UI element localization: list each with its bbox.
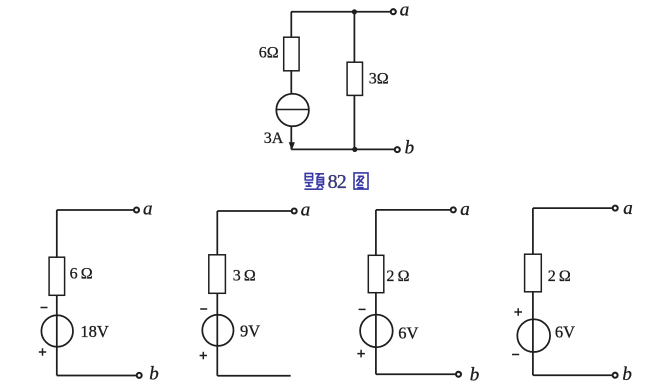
svg-text:2 Ω: 2 Ω	[548, 268, 571, 285]
wire through source (circuit 1)	[56, 295, 58, 375]
terminal a (circuit 2)	[292, 209, 297, 214]
wire bottom horizontal (top circuit)	[291, 148, 394, 150]
svg-text:3Ω: 3Ω	[369, 70, 389, 87]
svg-text:3 Ω: 3 Ω	[233, 268, 256, 285]
svg-text:a: a	[143, 198, 153, 219]
terminal b (circuit 3)	[456, 372, 461, 377]
terminal a (top circuit)	[391, 9, 396, 14]
current source 3A (circle with bar)	[276, 94, 309, 127]
polarity minus (circuit 2)	[200, 308, 207, 310]
resistor 2Ω (circuit 4)	[525, 254, 542, 292]
wire top horizontal (circuit 1)	[57, 209, 134, 211]
svg-text:18V: 18V	[80, 322, 109, 341]
wire vertical above resistor (circuit 4)	[532, 208, 534, 254]
resistor 3Ω (circuit 2)	[209, 255, 226, 293]
resistor 2Ω (circuit 3)	[368, 255, 384, 292]
svg-text:82: 82	[328, 171, 346, 193]
svg-text:a: a	[460, 199, 470, 220]
wire bottom horizontal (circuit 3)	[376, 373, 455, 375]
wire vertical above resistor (circuit 3)	[375, 210, 377, 255]
glyph 题	[304, 173, 322, 189]
svg-text:b: b	[405, 138, 415, 159]
polarity plus (circuit 1)	[39, 348, 46, 355]
wire through source (circuit 2)	[216, 293, 218, 376]
wire top horizontal (top circuit)	[291, 11, 390, 13]
svg-text:b: b	[470, 365, 480, 386]
resistor 6Ω (top circuit)	[284, 37, 299, 71]
voltage source 18V (circuit 1)	[41, 315, 73, 347]
polarity minus (circuit 3)	[359, 308, 366, 310]
wire through source (circuit 3)	[375, 293, 377, 375]
svg-text:b: b	[622, 364, 632, 385]
wire left vertical above resistor	[290, 12, 292, 37]
polarity minus (circuit 1)	[41, 307, 48, 309]
wire top horizontal (circuit 2)	[217, 210, 291, 212]
wire bottom horizontal (circuit 1)	[57, 375, 136, 377]
voltage source 6V (circuit 3)	[360, 315, 393, 348]
polarity minus (circuit 4)	[512, 354, 519, 356]
svg-text:a: a	[623, 198, 633, 219]
svg-text:3A: 3A	[264, 130, 284, 147]
wire vertical above resistor (circuit 2)	[216, 211, 218, 255]
wire top horizontal (circuit 3)	[376, 209, 450, 211]
svg-text:6V: 6V	[398, 323, 418, 342]
svg-text:a: a	[400, 0, 410, 21]
terminal b (top circuit)	[395, 147, 400, 152]
svg-text:6V: 6V	[555, 322, 575, 341]
terminal a (circuit 4)	[613, 206, 618, 211]
terminal b (circuit 1)	[137, 373, 142, 378]
terminal a (circuit 3)	[451, 207, 456, 212]
junction node bottom	[352, 147, 357, 152]
svg-text:6Ω: 6Ω	[259, 45, 279, 62]
terminal b (circuit 4)	[613, 373, 618, 378]
junction node top	[352, 9, 357, 14]
wire top horizontal (circuit 4)	[533, 207, 612, 209]
resistor 6Ω (circuit 1)	[49, 257, 65, 295]
wire bottom horizontal (circuit 2, terminal cropped)	[217, 375, 290, 377]
wire through source (circuit 4)	[532, 292, 534, 376]
svg-text:b: b	[149, 364, 159, 385]
caption 题 82 图	[304, 171, 368, 193]
wire right vertical below resistor	[353, 95, 355, 149]
polarity plus (circuit 2)	[200, 352, 207, 359]
terminal a (circuit 1)	[134, 208, 139, 213]
resistor 3Ω (top circuit)	[347, 62, 362, 95]
voltage source 6V (circuit 4)	[517, 319, 550, 352]
wire right vertical above resistor	[353, 12, 355, 62]
voltage source 9V (circuit 2)	[202, 315, 233, 346]
svg-text:6 Ω: 6 Ω	[70, 266, 93, 283]
svg-text:9V: 9V	[240, 321, 260, 340]
wire with current arrow (source to bottom node)	[290, 126, 292, 149]
wire bottom horizontal (circuit 4)	[533, 374, 612, 376]
svg-text:a: a	[301, 199, 311, 220]
polarity plus (circuit 4)	[514, 308, 522, 316]
glyph 图	[354, 173, 368, 189]
svg-text:2 Ω: 2 Ω	[386, 268, 409, 285]
wire between resistor and current source	[290, 71, 292, 94]
wire vertical above resistor (circuit 1)	[56, 210, 58, 257]
polarity plus (circuit 3)	[357, 350, 365, 358]
